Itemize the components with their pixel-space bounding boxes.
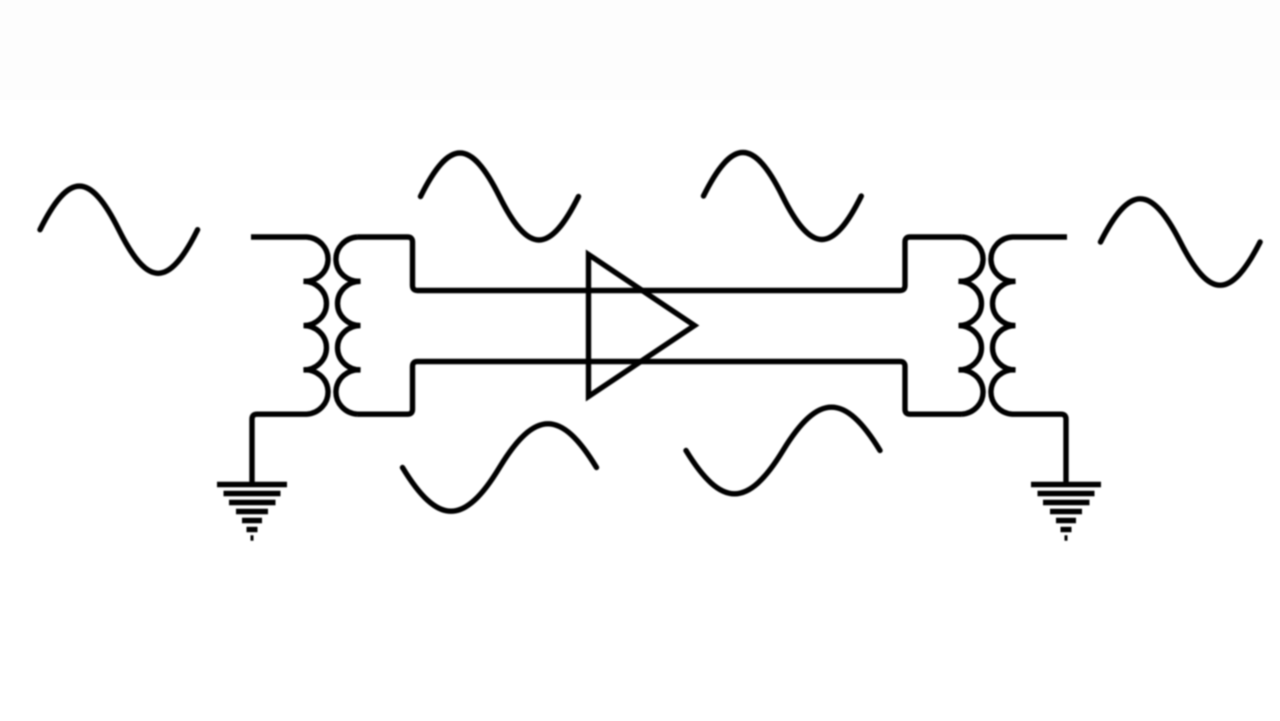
sine wave W2 (upper left waveform) [421,153,579,240]
ground symbol GND1 (left earth ground) [217,485,287,539]
transformer T1 secondary winding [336,237,361,414]
wire: top rail from T1 secondary to T2 primary [358,237,962,291]
transformer T2 primary winding [959,237,984,414]
sine wave W1 (left input signal) [40,186,198,273]
ground symbol GND2 (right earth ground) [1031,485,1101,539]
transformer T1 primary winding with top lead, bottom lead and ground wire [251,237,328,484]
transformer T2 secondary winding with top lead, bottom lead and ground wire [991,237,1067,484]
wire: bottom rail from T1 secondary to T2 primary [358,362,962,415]
sine wave W4 (right output signal) [1101,199,1261,285]
sine wave W6 (lower right waveform, inverted) [686,407,880,494]
sine wave W3 (upper right waveform) [704,153,862,240]
sine wave W5 (lower left waveform, inverted) [403,424,597,511]
op-amp U1 (amplifier triangle) [589,255,695,397]
